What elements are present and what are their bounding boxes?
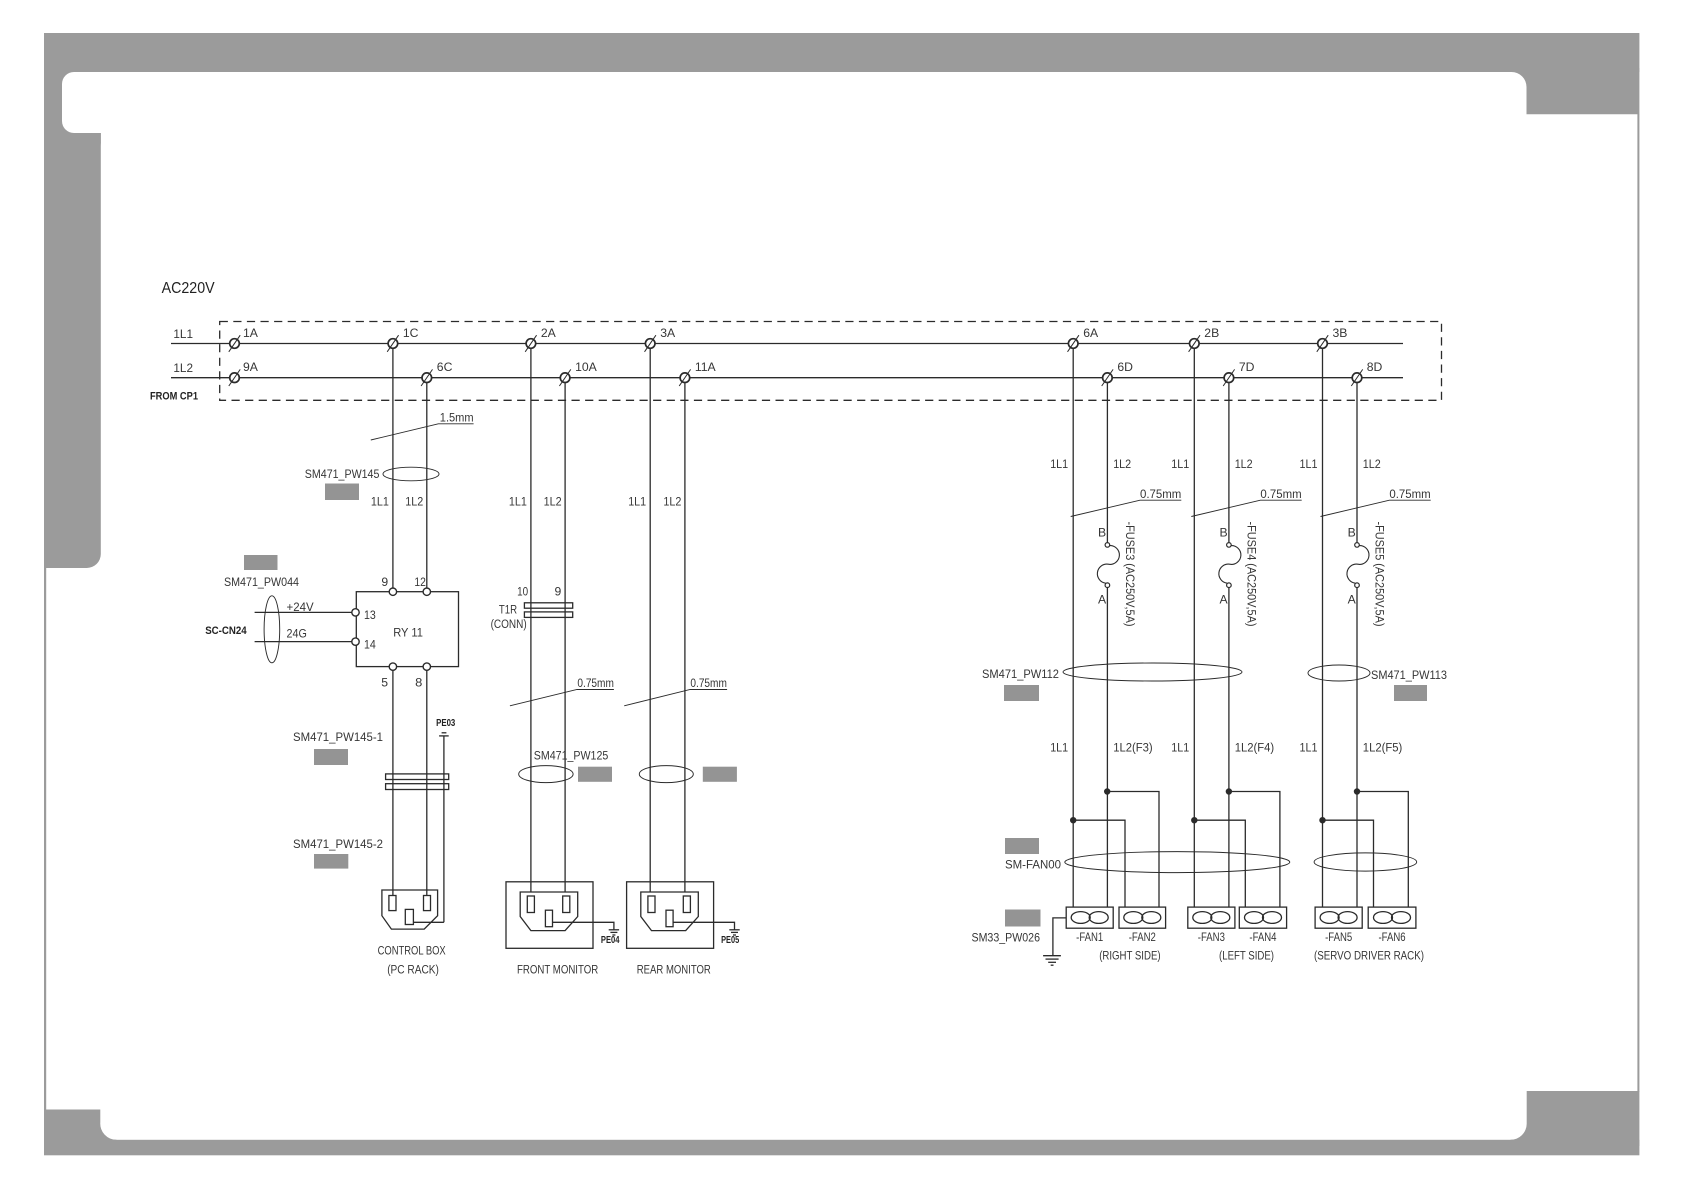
- svg-text:1L2: 1L2: [544, 495, 562, 509]
- svg-text:1.5mm: 1.5mm: [440, 410, 474, 424]
- svg-text:PE04: PE04: [601, 935, 620, 946]
- svg-text:8D: 8D: [1367, 360, 1383, 374]
- svg-text:1L2(F5): 1L2(F5): [1363, 741, 1403, 755]
- svg-text:-FUSE4 (AC250V,5A): -FUSE4 (AC250V,5A): [1245, 522, 1259, 627]
- svg-text:SM471_PW125: SM471_PW125: [534, 749, 609, 763]
- svg-text:FROM CP1: FROM CP1: [150, 391, 198, 403]
- svg-text:1L1: 1L1: [1050, 741, 1068, 755]
- svg-text:B: B: [1098, 526, 1106, 540]
- svg-text:(LEFT SIDE): (LEFT SIDE): [1219, 949, 1274, 963]
- svg-text:2B: 2B: [1204, 326, 1219, 340]
- svg-text:5: 5: [381, 676, 388, 690]
- svg-text:-FAN3: -FAN3: [1198, 930, 1225, 944]
- svg-text:1L2: 1L2: [663, 495, 681, 509]
- svg-text:10: 10: [517, 585, 528, 599]
- svg-text:A: A: [1098, 592, 1107, 606]
- svg-text:11A: 11A: [695, 360, 717, 374]
- svg-text:1L1: 1L1: [1050, 457, 1068, 471]
- svg-text:+24V: +24V: [287, 600, 315, 614]
- svg-text:24G: 24G: [287, 627, 307, 641]
- svg-text:8: 8: [415, 676, 422, 690]
- svg-text:1L1: 1L1: [1300, 741, 1318, 755]
- svg-text:1C: 1C: [403, 326, 419, 340]
- svg-text:1A: 1A: [243, 326, 259, 340]
- svg-text:-FUSE3 (AC250V,5A): -FUSE3 (AC250V,5A): [1123, 522, 1137, 627]
- svg-text:10A: 10A: [575, 360, 598, 374]
- svg-text:REAR MONITOR: REAR MONITOR: [637, 963, 711, 977]
- svg-text:FRONT MONITOR: FRONT MONITOR: [517, 963, 598, 977]
- svg-text:(CONN): (CONN): [491, 617, 527, 631]
- svg-text:PE03: PE03: [436, 718, 456, 729]
- svg-text:B: B: [1220, 526, 1228, 540]
- svg-text:AC220V: AC220V: [162, 280, 215, 297]
- svg-text:A: A: [1348, 592, 1357, 606]
- svg-text:PE05: PE05: [721, 935, 739, 946]
- svg-text:CONTROL BOX: CONTROL BOX: [378, 944, 446, 958]
- svg-text:1L2(F4): 1L2(F4): [1235, 741, 1275, 755]
- svg-text:6C: 6C: [437, 360, 453, 374]
- svg-text:-FAN6: -FAN6: [1379, 930, 1406, 944]
- svg-text:-FAN2: -FAN2: [1129, 930, 1156, 944]
- svg-text:1L1: 1L1: [628, 495, 646, 509]
- svg-text:SM471_PW044: SM471_PW044: [224, 575, 299, 589]
- svg-text:1L1: 1L1: [173, 327, 193, 341]
- svg-text:0.75mm: 0.75mm: [1260, 487, 1301, 501]
- svg-text:RY 11: RY 11: [393, 626, 423, 640]
- svg-text:1L2: 1L2: [173, 361, 193, 375]
- svg-text:13: 13: [364, 608, 376, 622]
- svg-text:1L1: 1L1: [371, 495, 389, 509]
- svg-text:1L2: 1L2: [1113, 457, 1131, 471]
- svg-text:-FAN4: -FAN4: [1249, 930, 1276, 944]
- svg-text:0.75mm: 0.75mm: [577, 676, 614, 690]
- svg-text:2A: 2A: [541, 326, 557, 340]
- svg-text:9: 9: [381, 575, 388, 589]
- svg-text:3B: 3B: [1333, 326, 1348, 340]
- svg-text:-FUSE5 (AC250V,5A): -FUSE5 (AC250V,5A): [1373, 522, 1387, 627]
- svg-text:9A: 9A: [243, 360, 259, 374]
- svg-text:SM471_PW145-2: SM471_PW145-2: [293, 837, 383, 851]
- svg-text:0.75mm: 0.75mm: [1140, 487, 1181, 501]
- svg-text:7D: 7D: [1239, 360, 1255, 374]
- svg-text:1L2: 1L2: [1235, 457, 1253, 471]
- svg-text:9: 9: [555, 585, 562, 599]
- svg-text:1L2(F3): 1L2(F3): [1113, 741, 1153, 755]
- svg-text:3A: 3A: [660, 326, 676, 340]
- svg-text:0.75mm: 0.75mm: [1389, 487, 1430, 501]
- svg-text:12: 12: [414, 575, 426, 589]
- svg-text:14: 14: [364, 638, 376, 652]
- svg-text:SC-CN24: SC-CN24: [205, 625, 247, 637]
- svg-text:1L1: 1L1: [1300, 457, 1318, 471]
- svg-text:0.75mm: 0.75mm: [690, 676, 727, 690]
- svg-text:-FAN5: -FAN5: [1325, 930, 1352, 944]
- svg-text:B: B: [1348, 526, 1356, 540]
- svg-text:6D: 6D: [1117, 360, 1133, 374]
- svg-text:1L1: 1L1: [509, 495, 527, 509]
- svg-text:SM471_PW112: SM471_PW112: [982, 667, 1059, 681]
- svg-text:A: A: [1220, 592, 1229, 606]
- svg-text:SM471_PW113: SM471_PW113: [1371, 668, 1447, 682]
- svg-text:(RIGHT SIDE): (RIGHT SIDE): [1099, 949, 1160, 963]
- svg-text:T1R: T1R: [499, 603, 517, 617]
- svg-text:1L2: 1L2: [1363, 457, 1381, 471]
- svg-text:SM-FAN00: SM-FAN00: [1005, 858, 1061, 872]
- svg-text:1L1: 1L1: [1171, 457, 1189, 471]
- svg-text:1L1: 1L1: [1171, 741, 1189, 755]
- svg-text:6A: 6A: [1083, 326, 1099, 340]
- svg-text:SM33_PW026: SM33_PW026: [972, 931, 1041, 945]
- svg-text:(SERVO DRIVER RACK): (SERVO DRIVER RACK): [1314, 949, 1424, 963]
- svg-text:SM471_PW145: SM471_PW145: [305, 467, 380, 481]
- svg-text:-FAN1: -FAN1: [1076, 930, 1103, 944]
- svg-text:SM471_PW145-1: SM471_PW145-1: [293, 730, 383, 744]
- svg-text:1L2: 1L2: [405, 495, 423, 509]
- svg-text:(PC RACK): (PC RACK): [387, 963, 439, 977]
